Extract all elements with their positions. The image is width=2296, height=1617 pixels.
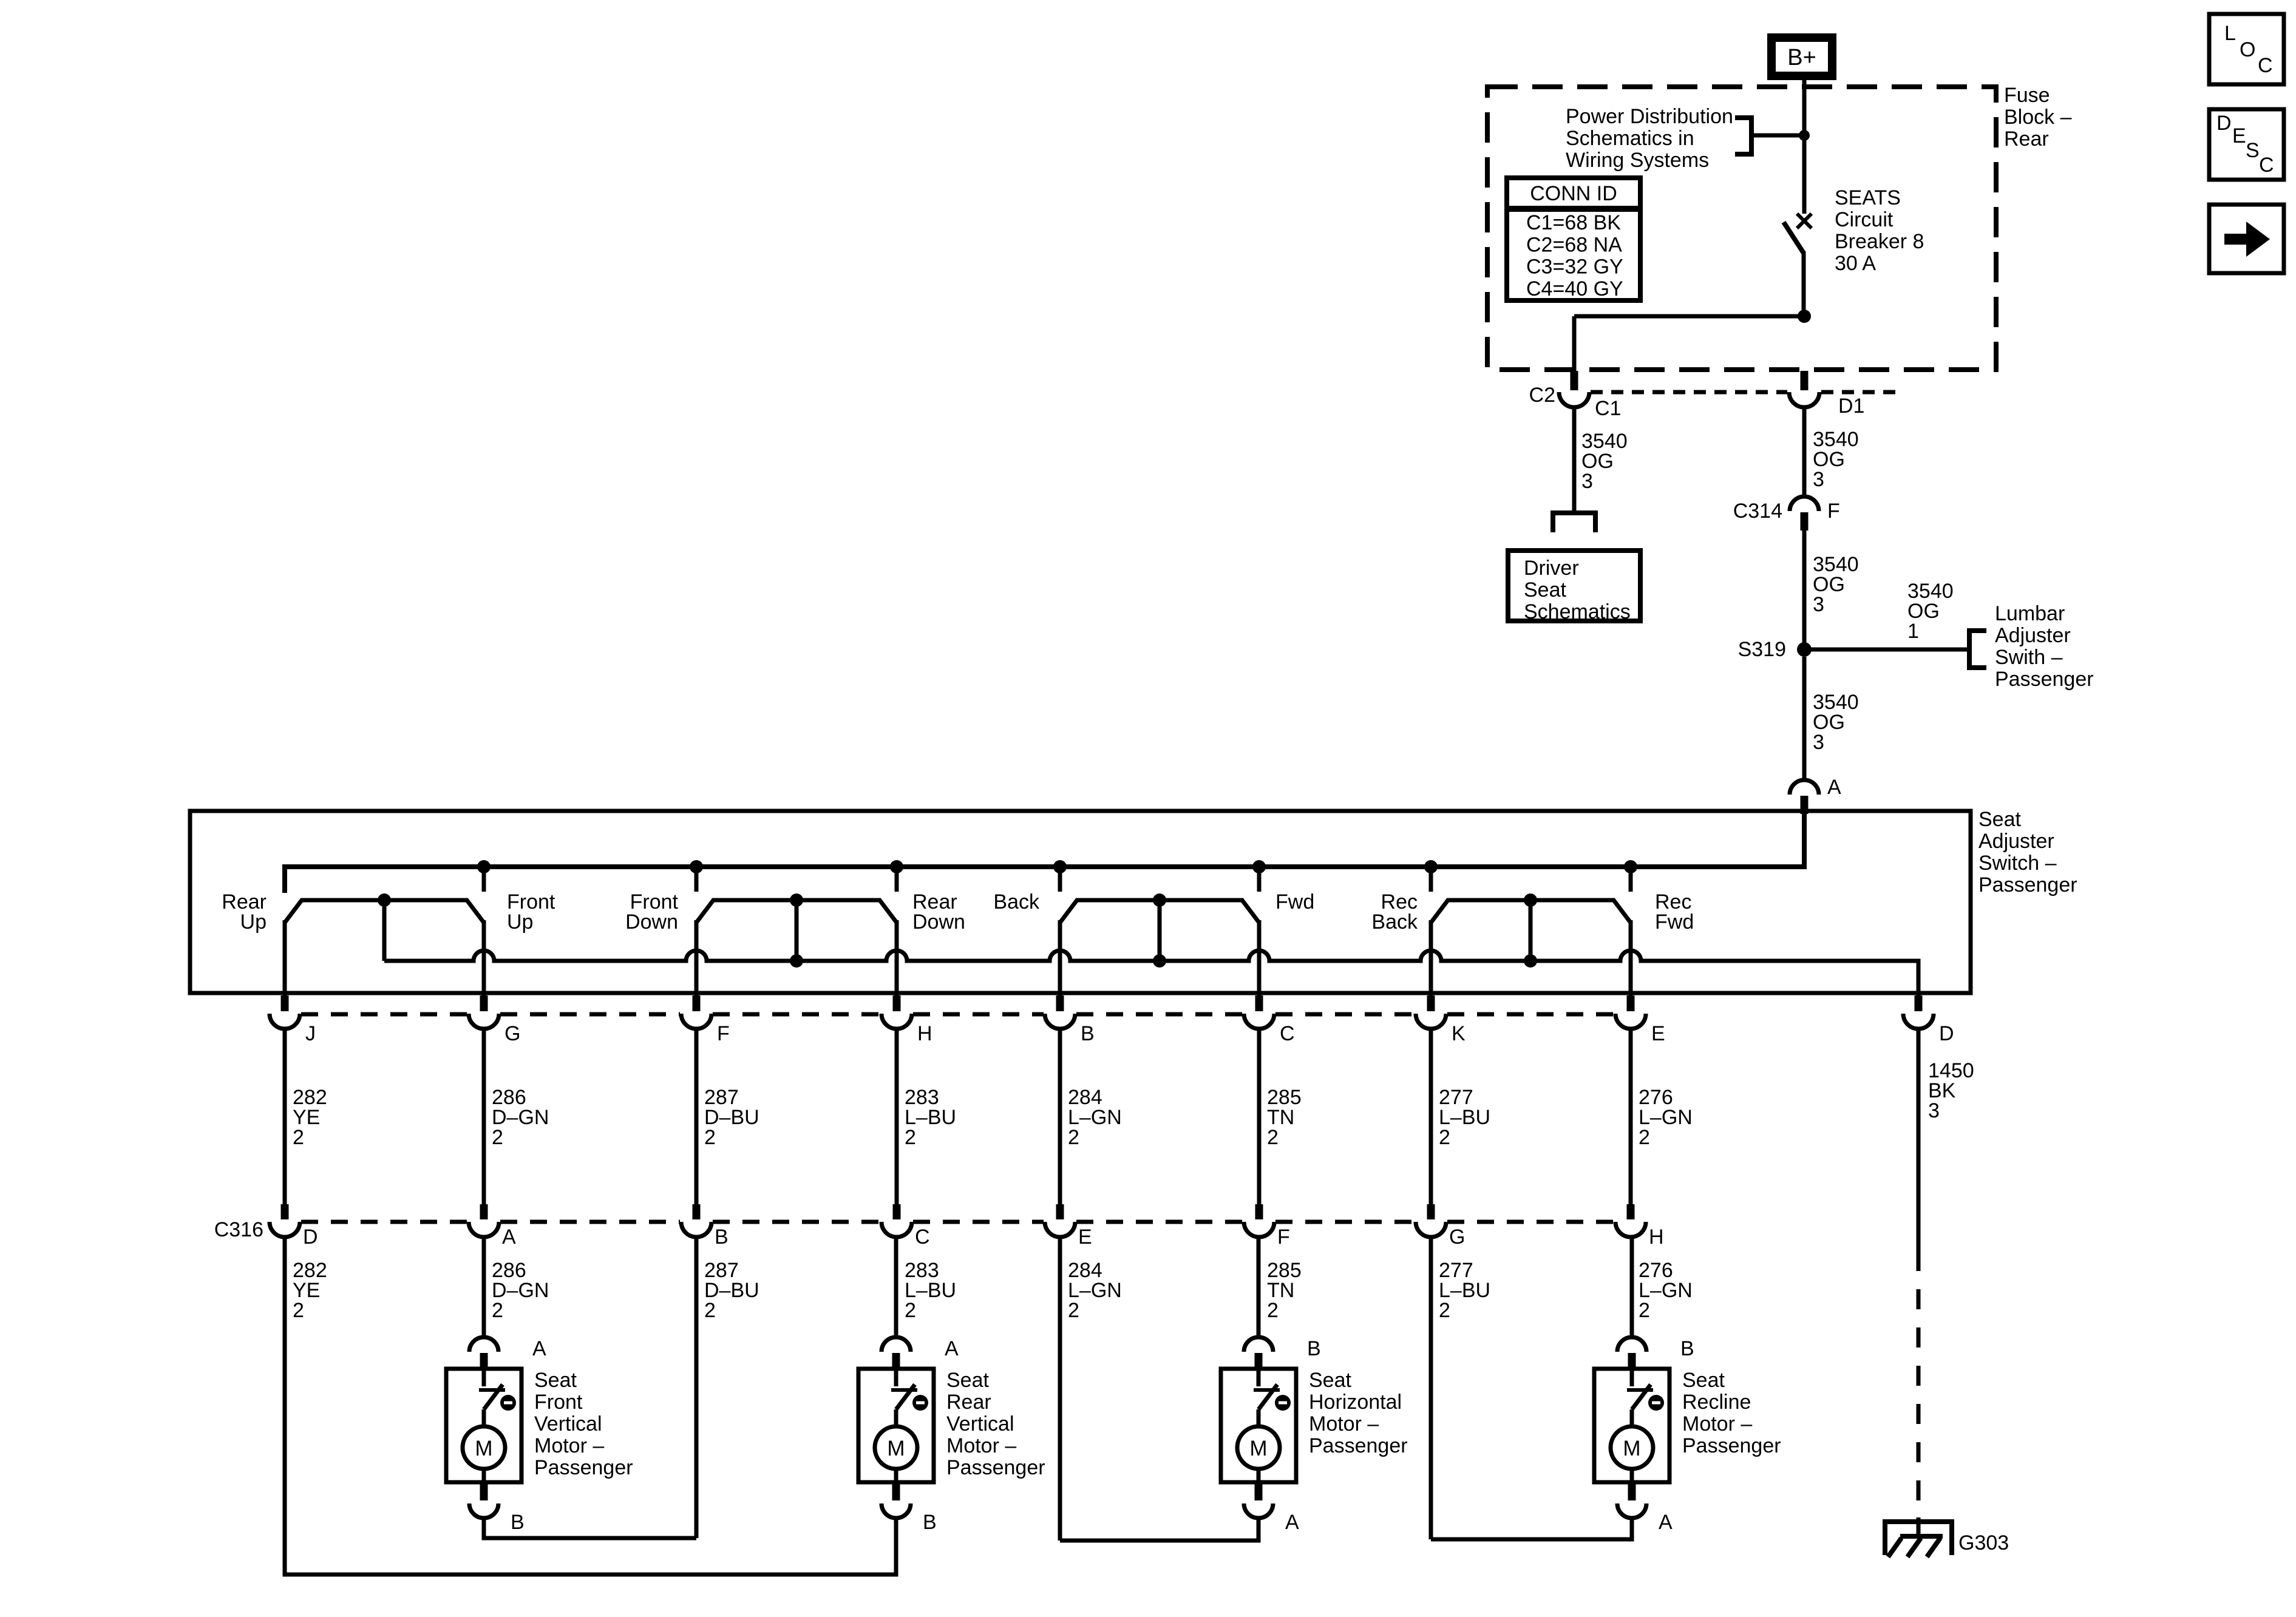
connector stub switch pin K — [1427, 995, 1435, 1011]
CONN ID table header separator — [1507, 206, 1640, 212]
svg-text:M: M — [1623, 1437, 1640, 1460]
wire E column output — [1629, 920, 1633, 995]
connector half seat recline motor pin B — [1617, 1337, 1646, 1352]
connector stub switch pin B — [1056, 995, 1064, 1011]
svg-text:A: A — [532, 1337, 546, 1360]
seat horizontal motor breaker blade — [1258, 1385, 1277, 1409]
connector half seat rear vertical motor pin B — [881, 1503, 911, 1518]
wire C column output — [1257, 920, 1262, 995]
connector half seat front vertical motor pin A — [469, 1337, 498, 1352]
svg-text:C314: C314 — [1733, 500, 1782, 523]
seat recline motor breaker contact — [1627, 1388, 1653, 1392]
wire 284 B to C316 — [1058, 1029, 1062, 1205]
connector half switch pin G — [469, 1014, 499, 1029]
wire 287 F to C316 — [695, 1029, 699, 1205]
svg-text:C1: C1 — [1595, 397, 1621, 420]
svg-text:Fwd: Fwd — [1275, 890, 1314, 914]
wire H column output — [895, 920, 899, 995]
connector stub A switch input — [1801, 796, 1809, 814]
connector C314 half F — [1790, 497, 1819, 511]
connector stub seat horizontal motor pin A — [1255, 1482, 1263, 1500]
connector stub C316 pin C — [893, 1204, 901, 1219]
svg-text:F: F — [717, 1022, 730, 1045]
bus contact stub E column — [1629, 867, 1633, 892]
connector half switch pin K — [1416, 1014, 1446, 1029]
seat recline motor motor to box bottom — [1630, 1469, 1634, 1482]
svg-text:B: B — [923, 1511, 937, 1534]
svg-text:K: K — [1452, 1022, 1466, 1045]
off-page fork to driver seat schematics — [1553, 513, 1595, 532]
off-page bracket to lumbar adjuster switch — [1969, 631, 1986, 668]
off-page bracket to power distribution schematics — [1735, 118, 1751, 154]
driver seat schematics box — [1508, 551, 1640, 621]
svg-text:RecFwd: RecFwd — [1655, 890, 1694, 934]
svg-text:D: D — [303, 1225, 318, 1249]
connector stub switch pin G — [480, 995, 488, 1011]
bus junction dot C column — [1252, 860, 1266, 873]
connector half switch pin J — [270, 1014, 300, 1029]
svg-text:J: J — [305, 1022, 316, 1045]
connector stub switch pin E — [1627, 995, 1635, 1011]
fuse block - rear dashed outline — [1487, 87, 1996, 370]
svg-text:C: C — [2259, 154, 2274, 177]
svg-text:G: G — [504, 1022, 520, 1045]
connector stub C316 pin D — [281, 1204, 289, 1219]
connector stub switch pin C — [1255, 995, 1263, 1011]
connector stub seat rear vertical motor pin B — [892, 1482, 900, 1500]
wire C316 to seat front vertical motor — [482, 1237, 486, 1338]
wire C2 to driver seat schematics — [1572, 407, 1577, 513]
connector stub seat recline motor pin A — [1628, 1482, 1636, 1500]
junction dot power feed — [1799, 130, 1810, 141]
bus contact stub G column — [482, 867, 486, 892]
svg-text:S319: S319 — [1738, 638, 1786, 661]
connector stub D1 — [1801, 371, 1809, 390]
seat rear vertical motor thermal element — [912, 1395, 928, 1411]
connector stub seat front vertical motor pin A — [480, 1353, 488, 1369]
power symbol B+ battery feed box — [1771, 38, 1832, 76]
seat recline motor thermal element — [1648, 1395, 1664, 1411]
motor M symbol seat rear vertical motor — [875, 1426, 917, 1469]
seat front vertical motor breaker lead — [482, 1369, 486, 1386]
motor M symbol seat horizontal motor — [1237, 1426, 1280, 1469]
svg-text:B: B — [1680, 1337, 1694, 1360]
wire C316 G down — [1429, 1237, 1433, 1539]
wire breaker blade to output junction — [1802, 251, 1806, 316]
connector C2 half — [1559, 392, 1589, 407]
ground G303 symbol — [1885, 1519, 1952, 1524]
svg-text:B: B — [1307, 1337, 1321, 1360]
wire junction down to circuit breaker — [1802, 135, 1807, 214]
wire 277 K to C316 — [1429, 1029, 1433, 1205]
seat front vertical motor breaker blade — [484, 1385, 503, 1409]
svg-text:C: C — [1280, 1022, 1295, 1045]
wire C316 to seat recline motor — [1630, 1237, 1634, 1338]
switch Front Down / Rear Down rocker wiper junction dot — [790, 893, 803, 907]
connector stub C2 — [1571, 371, 1578, 390]
wire 276 E to C316 — [1629, 1029, 1633, 1205]
svg-text:B+: B+ — [1787, 45, 1816, 70]
connector half switch pin B — [1045, 1014, 1075, 1029]
svg-text:H: H — [1649, 1225, 1664, 1249]
splice S319 — [1797, 642, 1812, 657]
switch Back / Fwd rocker wiper to common — [1158, 900, 1162, 961]
CONN ID table box — [1507, 178, 1640, 300]
connector half switch pin D — [1903, 1014, 1934, 1029]
svg-text:C2: C2 — [1529, 384, 1555, 407]
connector C316 half pin F — [1244, 1222, 1274, 1237]
connector C316 half pin D — [270, 1222, 300, 1237]
wire F column output — [695, 920, 699, 995]
wire 286 G to C316 — [482, 1029, 486, 1205]
switch output connector row dashed line — [301, 1012, 467, 1017]
svg-text:A: A — [945, 1337, 959, 1360]
connector C316 half pin G — [1416, 1222, 1446, 1237]
bus contact stub B column — [1058, 867, 1062, 892]
svg-text:L: L — [2224, 22, 2236, 45]
connector stub C316 pin G — [1427, 1204, 1435, 1219]
seat rear vertical motor motor to box bottom — [894, 1469, 898, 1482]
bus junction dot F column — [690, 860, 703, 873]
junction dot common line — [1153, 954, 1166, 968]
motor seat recline motor box — [1594, 1369, 1669, 1482]
switch Rear Up / Front Up rocker movable contact — [285, 900, 484, 923]
bus contact stub K column — [1429, 867, 1433, 892]
switch Rear Up / Front Up rocker wiper to common — [382, 900, 387, 961]
wire C316 to seat rear vertical motor — [894, 1237, 898, 1338]
bus junction dot E column — [1624, 860, 1637, 873]
svg-text:S: S — [2246, 139, 2260, 162]
bus junction dot G column — [477, 860, 491, 873]
junction dot common line — [1524, 954, 1537, 968]
svg-text:A: A — [1659, 1511, 1673, 1534]
motor seat horizontal motor box — [1221, 1369, 1296, 1482]
wire B+ to fuse block junction — [1802, 80, 1807, 137]
switch Rec Back / Rec Fwd rocker wiper to common — [1529, 900, 1533, 961]
connector half seat horizontal motor pin B — [1244, 1337, 1273, 1352]
svg-text:CONN ID: CONN ID — [1530, 182, 1617, 205]
seat horizontal motor breaker contact — [1254, 1388, 1280, 1392]
wire 285 C to C316 — [1257, 1029, 1262, 1205]
wire C316 to seat horizontal motor — [1257, 1237, 1261, 1338]
svg-text:A: A — [1285, 1511, 1299, 1534]
LOC navigation box — [2209, 14, 2284, 84]
seat adjuster switch - passenger box — [190, 811, 1971, 993]
connector stub switch pin J — [281, 995, 289, 1011]
wire breaker output to C2 drop — [1574, 314, 1804, 319]
svg-text:A: A — [1827, 776, 1841, 799]
connector stub C314 F — [1801, 512, 1809, 531]
seat horizontal motor breaker lead — [1257, 1369, 1261, 1386]
svg-text:E: E — [2232, 124, 2246, 147]
wire C316 D to seat rear vertical motor B — [285, 1237, 896, 1575]
svg-text:Back: Back — [993, 890, 1040, 914]
svg-text:F: F — [1827, 500, 1840, 523]
wire D1 to C314 — [1802, 407, 1807, 498]
forward arrow navigation box — [2209, 205, 2284, 273]
svg-text:A: A — [502, 1225, 516, 1249]
wire C316 B down — [695, 1237, 699, 1538]
connector half switch pin E — [1615, 1014, 1646, 1029]
switch Back / Fwd rocker wiper junction dot — [1153, 893, 1166, 907]
switch Front Down / Rear Down rocker movable contact — [696, 900, 897, 923]
connector stub switch pin H — [893, 995, 901, 1011]
wire ground lead dashed continuation — [1917, 1251, 1921, 1520]
connector row C1 dashed line — [1591, 390, 1787, 395]
switch Rec Back / Rec Fwd rocker movable contact — [1431, 900, 1631, 923]
svg-text:M: M — [1249, 1437, 1267, 1460]
connector half seat recline motor pin A — [1617, 1503, 1646, 1518]
seat rear vertical motor breaker to motor — [894, 1409, 898, 1428]
connector half A switch input — [1790, 780, 1819, 795]
motor M symbol seat front vertical motor — [463, 1426, 505, 1469]
seat horizontal motor thermal element — [1275, 1395, 1291, 1411]
seat horizontal motor breaker to motor — [1257, 1409, 1261, 1428]
switch Rec Back / Rec Fwd rocker wiper junction dot — [1524, 893, 1537, 907]
svg-text:H: H — [917, 1022, 932, 1045]
bus contact stub C column — [1257, 867, 1262, 892]
junction dot breaker output — [1798, 310, 1811, 323]
svg-text:B: B — [1081, 1022, 1095, 1045]
connector stub seat rear vertical motor pin A — [892, 1353, 900, 1369]
seat front vertical motor motor to box bottom — [482, 1469, 486, 1482]
wire S319 to lumbar adjuster switch — [1804, 648, 1969, 652]
svg-text:FrontDown: FrontDown — [625, 890, 678, 934]
svg-text:M: M — [887, 1437, 905, 1460]
svg-text:C316: C316 — [214, 1218, 263, 1241]
connector half seat horizontal motor pin A — [1244, 1503, 1273, 1518]
connector C316 dashed line — [301, 1220, 467, 1224]
junction dot common line — [790, 954, 803, 968]
seat recline motor breaker to motor — [1630, 1409, 1634, 1428]
svg-text:C: C — [2258, 54, 2273, 77]
motor M symbol seat recline motor — [1611, 1426, 1653, 1469]
svg-text:B: B — [511, 1511, 525, 1534]
svg-text:D: D — [2216, 112, 2232, 135]
svg-text:G: G — [1449, 1225, 1465, 1249]
wire G column output — [482, 920, 486, 995]
connector C316 half pin A — [469, 1222, 499, 1237]
connector D1 half — [1789, 392, 1819, 407]
connector stub seat recline motor pin B — [1628, 1353, 1636, 1369]
svg-text:G303: G303 — [1958, 1531, 2009, 1554]
svg-text:F: F — [1277, 1225, 1290, 1249]
connector stub C316 pin A — [480, 1204, 488, 1219]
seat recline motor breaker lead — [1630, 1369, 1634, 1386]
wire C316 E down — [1058, 1237, 1062, 1541]
connector half seat front vertical motor pin B — [469, 1503, 498, 1518]
connector stub C316 pin B — [693, 1204, 701, 1219]
wire B column output — [1058, 920, 1062, 995]
connector C316 half pin H — [1615, 1222, 1646, 1237]
switch Front Down / Rear Down rocker wiper to common — [795, 900, 799, 961]
wire K column output — [1429, 920, 1433, 995]
seat rear vertical motor breaker lead — [894, 1369, 898, 1386]
switch feed bus from pin A — [285, 813, 1804, 893]
connector stub switch pin D — [1915, 995, 1923, 1011]
bus junction dot H column — [890, 860, 903, 873]
wire seat horizontal motor A to C316 E — [1060, 1519, 1258, 1541]
wire 283 H to C316 — [895, 1029, 899, 1205]
svg-text:E: E — [1651, 1022, 1665, 1045]
svg-text:D1: D1 — [1838, 395, 1864, 418]
connector half switch pin H — [881, 1014, 912, 1029]
seat front vertical motor breaker contact — [479, 1388, 505, 1392]
connector stub C316 pin F — [1255, 1204, 1263, 1219]
wire switch pin D ground lead — [1917, 1029, 1921, 1251]
connector C316 half pin C — [881, 1222, 912, 1237]
svg-text:E: E — [1078, 1225, 1092, 1249]
connector half seat rear vertical motor pin A — [881, 1337, 911, 1352]
bus junction dot K column — [1424, 860, 1438, 873]
bus contact stub F column — [695, 867, 699, 892]
wire seat front vertical motor B to C316 B — [484, 1519, 696, 1538]
svg-text:D: D — [1939, 1022, 1954, 1045]
connector stub seat horizontal motor pin B — [1255, 1353, 1263, 1369]
svg-text:O: O — [2240, 38, 2255, 61]
connector stub C316 pin E — [1056, 1204, 1064, 1219]
wire seat recline motor A to C316 G — [1431, 1519, 1632, 1539]
wire bracket to B+ feed — [1751, 134, 1804, 138]
DESC navigation box — [2209, 109, 2284, 180]
connector stub switch pin F — [693, 995, 701, 1011]
wire 282 J to C316 — [283, 1029, 287, 1205]
connector stub seat front vertical motor pin B — [480, 1482, 488, 1500]
wire drop to connector C2 — [1572, 316, 1577, 371]
circuit breaker contact X symbol — [1797, 214, 1812, 228]
motor seat front vertical motor box — [446, 1369, 521, 1482]
svg-text:M: M — [475, 1437, 492, 1460]
wire S319 to seat adjuster switch A — [1802, 657, 1807, 781]
seat rear vertical motor breaker blade — [896, 1385, 915, 1409]
svg-text:B: B — [715, 1225, 729, 1249]
connector stub C316 pin H — [1627, 1204, 1635, 1219]
wire C314 to splice S319 — [1802, 531, 1807, 649]
bus junction dot B column — [1053, 860, 1067, 873]
connector C316 half pin E — [1045, 1222, 1075, 1237]
wire J column output — [283, 920, 287, 995]
seat front vertical motor thermal element — [500, 1395, 516, 1411]
switch Rear Up / Front Up rocker wiper junction dot — [378, 893, 391, 907]
seat front vertical motor breaker to motor — [482, 1409, 486, 1428]
seat recline motor breaker blade — [1632, 1385, 1651, 1409]
connector half switch pin C — [1244, 1014, 1274, 1029]
switch Back / Fwd rocker movable contact — [1060, 900, 1259, 923]
svg-text:C1=68 BKC2=68 NAC3=32 GYC4=40: C1=68 BKC2=68 NAC3=32 GYC4=40 GY — [1526, 211, 1623, 300]
circuit breaker 8 switch blade — [1784, 222, 1804, 253]
connector C316 half pin B — [681, 1222, 712, 1237]
connector half switch pin F — [681, 1014, 712, 1029]
seat rear vertical motor breaker contact — [891, 1388, 917, 1392]
svg-text:C: C — [915, 1225, 930, 1249]
switch common return line to pin D — [384, 951, 1918, 995]
bus contact stub H column — [895, 867, 899, 892]
seat horizontal motor motor to box bottom — [1257, 1469, 1261, 1482]
motor seat rear vertical motor box — [858, 1369, 934, 1482]
